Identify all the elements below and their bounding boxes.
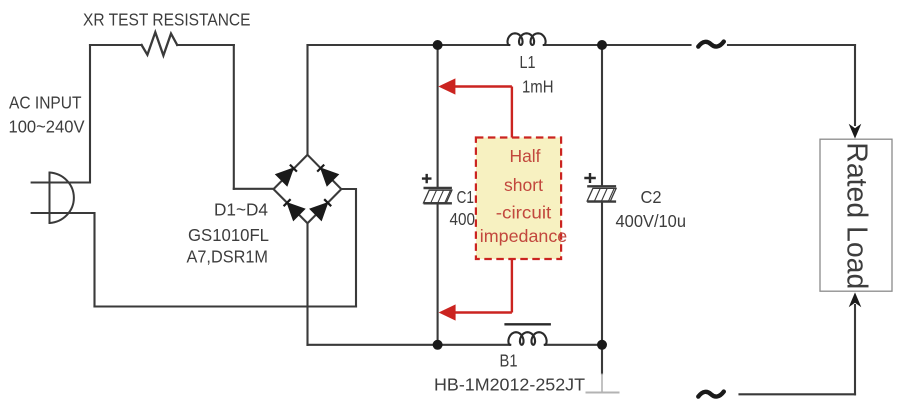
wire bottom rail right segment	[545, 344, 602, 346]
junction dot top-left (C1/top rail)	[433, 40, 443, 50]
svg-text:400V/10u: 400V/10u	[616, 211, 687, 231]
svg-text:Half: Half	[510, 146, 541, 166]
svg-text:L1: L1	[520, 52, 536, 72]
svg-text:HB-1M2012-252JT: HB-1M2012-252JT	[434, 375, 585, 395]
wire bottom AC return	[95, 305, 357, 307]
svg-text:A7,DSR1M: A7,DSR1M	[187, 247, 269, 267]
plus sign C1	[422, 174, 432, 183]
tilde bottom (AC break)	[698, 392, 724, 397]
wire plug bottom prong vertical down	[93, 213, 95, 307]
wire top rail right segment after tilde	[728, 44, 855, 46]
wire C2 top lead	[601, 45, 603, 186]
svg-text:400: 400	[450, 209, 476, 229]
svg-text:AC INPUT: AC INPUT	[9, 93, 82, 113]
svg-text:100~240V: 100~240V	[9, 117, 85, 137]
red arrow top (to C1 node)	[455, 87, 512, 138]
junction dot bottom-right (C2/bottom rail)	[597, 340, 607, 350]
diode bridge D1~D4	[274, 155, 342, 224]
wire C1 bottom lead	[437, 203, 439, 345]
capacitor C1	[424, 188, 452, 203]
svg-text:C2: C2	[641, 187, 662, 207]
plus sign C2	[584, 173, 596, 183]
red arrow bottom (to C1 node)	[455, 260, 512, 313]
annotation box: half short-circuit impedance	[476, 138, 561, 260]
svg-text:Rated Load: Rated Load	[841, 142, 873, 289]
ferrite bead B1 coil with bar	[504, 324, 551, 345]
plug P1 (AC inlet)	[32, 173, 95, 224]
inductor L1 coil	[508, 33, 546, 45]
wire to bridge left vertex	[234, 188, 274, 190]
wire bottom rail left segment	[308, 344, 511, 346]
wire bridge top vertex up to rail	[306, 45, 308, 155]
svg-text:GS1010FL: GS1010FL	[188, 225, 269, 245]
wire top prong vertical to top rail	[89, 45, 91, 183]
svg-text:B1: B1	[500, 351, 518, 371]
diode D (bottom-right edge)	[310, 199, 331, 220]
wire load bottom vertical	[854, 305, 856, 394]
tilde top (AC break)	[698, 42, 724, 47]
wire ground stub below bottom-right junction	[601, 345, 603, 374]
svg-text:C1: C1	[457, 187, 475, 207]
wire vertical x=234 down	[233, 45, 235, 189]
arrowhead into load top	[849, 124, 862, 139]
wire C2 bottom lead	[601, 202, 603, 345]
wire bridge right vertex to corner	[341, 189, 356, 307]
rated load box	[820, 139, 892, 291]
wire top rail middle segment	[308, 44, 510, 46]
ground (light) below junction	[586, 374, 620, 393]
arrowhead into load bottom	[849, 292, 862, 307]
svg-text:short: short	[504, 175, 543, 195]
diode D (top-left edge)	[276, 165, 297, 186]
wire right drop to load arrow	[854, 45, 856, 125]
wire top rail left segment to resistor	[90, 44, 142, 46]
capacitor C2	[587, 186, 616, 201]
wire resistor to corner x=234	[177, 44, 234, 46]
junction dot top-right (C2/top rail)	[597, 40, 607, 50]
svg-text:1mH: 1mH	[522, 76, 554, 96]
diode D (bottom-left edge)	[284, 199, 305, 220]
wire load bottom horizontal to tilde	[740, 393, 856, 395]
svg-text:D1~D4: D1~D4	[214, 200, 268, 220]
diode D (top-right edge)	[317, 165, 338, 186]
svg-text:-circuit: -circuit	[496, 203, 552, 223]
junction dot bottom-left (C1/bottom rail)	[433, 340, 443, 350]
svg-text:impedance: impedance	[480, 226, 568, 246]
bridge diamond outline	[274, 155, 342, 224]
resistor XR zigzag	[142, 32, 178, 55]
svg-text:XR TEST RESISTANCE: XR TEST RESISTANCE	[83, 9, 251, 29]
wire C1 top lead	[437, 45, 439, 188]
wire bridge bottom vertex down to bottom rail	[306, 223, 308, 344]
